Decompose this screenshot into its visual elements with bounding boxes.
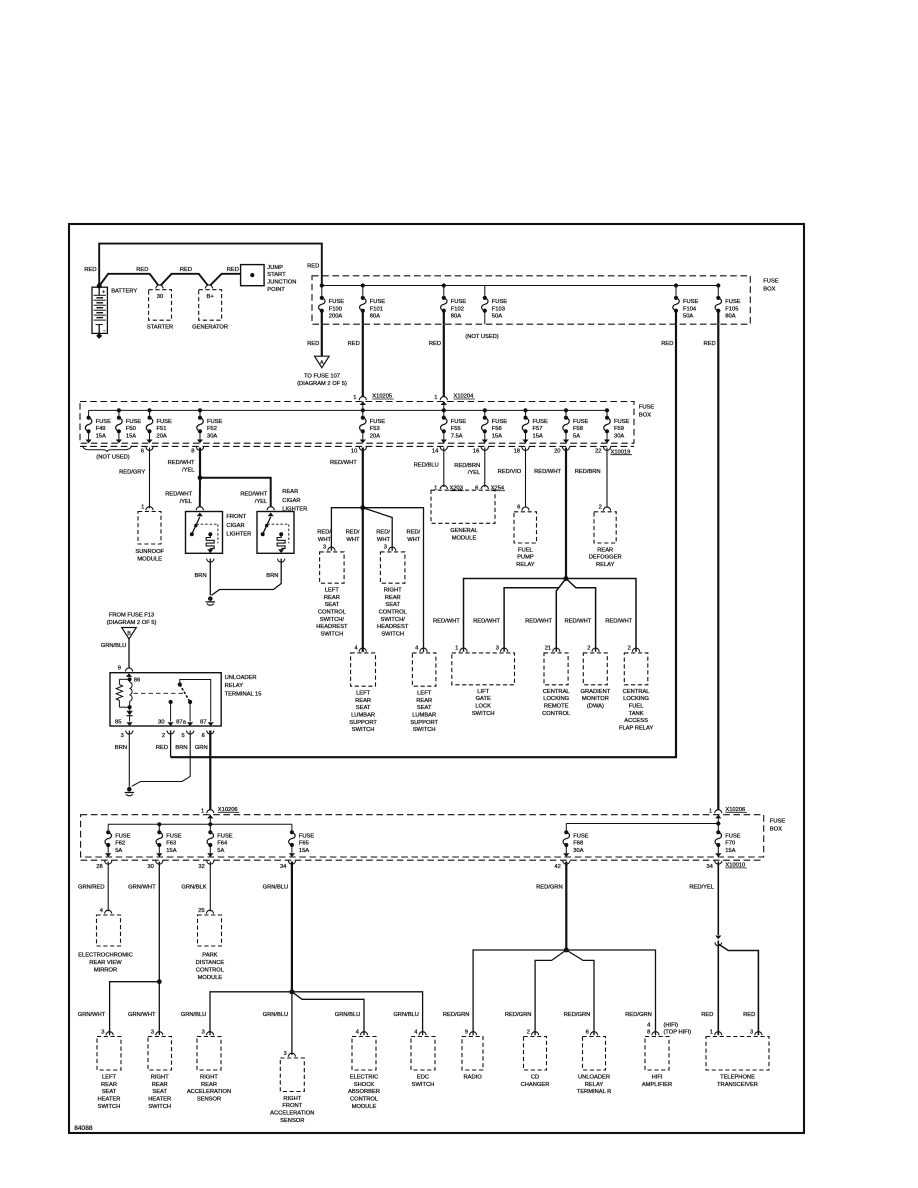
svg-text:GENERATOR: GENERATOR (192, 325, 228, 331)
svg-text:REAR VIEW: REAR VIEW (89, 960, 122, 966)
svg-text:SUPPORT: SUPPORT (349, 720, 377, 726)
wire F104 long feed (RED) (171, 324, 676, 757)
fuse F56 15A (484, 410, 486, 417)
svg-text:50A: 50A (683, 314, 693, 320)
svg-text:TRANSCEIVER: TRANSCEIVER (717, 1082, 758, 1088)
fuse box 2 output pin 22 (603, 447, 610, 451)
svg-text:5A: 5A (115, 848, 122, 854)
svg-text:RED/WHT: RED/WHT (564, 618, 591, 624)
relay contact 87 (180, 680, 211, 722)
svg-text:WHT: WHT (407, 537, 421, 543)
svg-text:200A: 200A (329, 314, 343, 320)
svg-text:(TOP HIFI): (TOP HIFI) (664, 1029, 692, 1035)
svg-text:F58: F58 (573, 426, 583, 432)
svg-text:FUSE: FUSE (683, 299, 699, 305)
svg-text:F53: F53 (370, 426, 380, 432)
rear cigar lighter (267, 507, 274, 511)
wire front lighter to ground (BRN) (207, 559, 214, 563)
svg-text:B+: B+ (206, 294, 214, 300)
battery positive distribution wire (RED) (99, 274, 158, 286)
wire F101 to X10205 (RED) (362, 324, 364, 397)
svg-text:GRN/RED: GRN/RED (78, 884, 105, 890)
svg-text:FUSE: FUSE (763, 278, 779, 284)
svg-text:REAR: REAR (597, 547, 613, 553)
connector X10206 left pin 1 (207, 810, 214, 814)
fuse F103 50A (484, 286, 486, 298)
svg-text:GRN: GRN (195, 745, 208, 751)
svg-text:FROM FUSE F13: FROM FUSE F13 (109, 613, 154, 619)
svg-text:2: 2 (587, 646, 590, 652)
connector X203 pin 1 (440, 485, 447, 489)
svg-text:F68: F68 (573, 841, 583, 847)
jump start junction point (241, 265, 265, 286)
svg-text:GRN/BLU: GRN/BLU (263, 884, 289, 890)
svg-text:1: 1 (353, 395, 356, 401)
connector X10205 pin 1 (359, 397, 366, 401)
svg-text:GRN/BLU: GRN/BLU (263, 1012, 289, 1018)
svg-text:−: − (103, 328, 106, 334)
svg-text:9: 9 (465, 1029, 468, 1035)
wire battery to fuse box bus (RED) (99, 244, 322, 286)
junction dot radio fan-out (564, 948, 569, 953)
svg-text:2: 2 (628, 646, 631, 652)
svg-text:FUSE: FUSE (725, 834, 741, 840)
svg-text:AMPLIFIER: AMPLIFIER (642, 1082, 672, 1088)
svg-text:RELAY: RELAY (225, 683, 244, 689)
generator G1 (205, 285, 212, 289)
svg-text:FUEL: FUEL (518, 547, 533, 553)
connector X10206 right pin 1 (715, 810, 722, 814)
svg-text:80A: 80A (451, 314, 461, 320)
svg-text:2: 2 (162, 733, 165, 739)
wire F100 to diagram 2 (RED) (321, 324, 323, 356)
svg-text:WHT: WHT (318, 537, 332, 543)
svg-text:28: 28 (96, 864, 102, 870)
svg-text:2: 2 (527, 1029, 530, 1035)
lift gate lock switch (460, 648, 467, 652)
fuse box 3 output pin 34 (288, 861, 295, 865)
svg-text:30: 30 (147, 864, 153, 870)
svg-text:GRN/BLU: GRN/BLU (335, 1012, 361, 1018)
svg-text:/YEL: /YEL (468, 470, 480, 476)
fuse F51 20A (149, 410, 151, 417)
svg-text:30A: 30A (207, 433, 217, 439)
svg-text:(DIAGRAM 2 OF 5): (DIAGRAM 2 OF 5) (297, 381, 347, 387)
svg-text:UNLOADER: UNLOADER (578, 1074, 610, 1080)
svg-text:1: 1 (710, 1029, 713, 1035)
svg-text:MIRROR: MIRROR (94, 967, 117, 973)
connector X254 pin 6 (481, 485, 488, 489)
svg-text:SEAT: SEAT (417, 705, 432, 711)
svg-text:1: 1 (201, 808, 204, 814)
relay contact 87a (189, 702, 191, 722)
svg-text:CIGAR: CIGAR (282, 498, 300, 504)
central locking fuel tank access flap relay (632, 648, 639, 652)
svg-text:6: 6 (141, 449, 144, 455)
unloader relay terminal 15 (110, 673, 221, 726)
svg-text:FLAP RELAY: FLAP RELAY (619, 726, 653, 732)
svg-text:14: 14 (432, 449, 439, 455)
svg-text:GRN/BLU: GRN/BLU (181, 1012, 207, 1018)
fuse box 3 output pin 28 (105, 861, 112, 865)
svg-text:RED/WHT: RED/WHT (605, 618, 632, 624)
svg-text:F65: F65 (299, 841, 309, 847)
svg-text:SWITCH: SWITCH (413, 727, 436, 733)
fuse box 3 left bus wire (108, 823, 292, 825)
svg-text:FUSE: FUSE (639, 405, 655, 411)
svg-text:/YEL: /YEL (180, 499, 192, 505)
svg-text:GRN/BLU: GRN/BLU (101, 643, 127, 649)
svg-text:MONITOR: MONITOR (582, 696, 609, 702)
fuse box 3 enclosure (81, 815, 764, 857)
radio (470, 1032, 477, 1036)
svg-text:+: + (102, 290, 105, 296)
wire to lift gate lock switch pin 3 (504, 588, 558, 652)
svg-text:RIGHT: RIGHT (200, 1074, 218, 1080)
svg-text:POINT: POINT (267, 287, 285, 293)
svg-text:ELECTRIC: ELECTRIC (350, 1074, 378, 1080)
svg-text:RED/WHT: RED/WHT (168, 460, 195, 466)
svg-text:LOCKING: LOCKING (543, 696, 569, 702)
svg-text:SUPPORT: SUPPORT (410, 720, 438, 726)
svg-text:CENTRAL: CENTRAL (543, 689, 570, 695)
svg-text:RED/BRN: RED/BRN (454, 463, 480, 469)
fuse F100 200A (321, 286, 323, 298)
wire F52 to cigar lighters (RED/WHT/YEL) (199, 448, 201, 478)
svg-text:F62: F62 (115, 841, 125, 847)
svg-text:SWITCH: SWITCH (352, 727, 375, 733)
svg-text:F63: F63 (166, 841, 176, 847)
fuse box 2 output pin 16 (481, 447, 488, 451)
svg-text:FRONT: FRONT (282, 1103, 302, 1109)
svg-text:RED/GRN: RED/GRN (564, 1012, 591, 1018)
svg-text:/YEL: /YEL (182, 467, 194, 473)
svg-text:3: 3 (496, 646, 499, 652)
svg-text:RED: RED (743, 1012, 755, 1018)
fuse F105 80A (717, 286, 719, 298)
svg-text:87a: 87a (176, 720, 187, 726)
svg-text:GRN/BLU: GRN/BLU (393, 1012, 419, 1018)
wire to hifi amplifier (566, 950, 655, 1035)
wire to right rear acceleration sensor (210, 992, 292, 1035)
svg-text:F51: F51 (157, 426, 167, 432)
svg-text:5: 5 (181, 733, 184, 739)
wire to right rear seat heater switch (158, 982, 160, 1035)
svg-text:REAR: REAR (101, 1082, 117, 1088)
svg-text:ACCESS: ACCESS (624, 718, 648, 724)
svg-text:F100: F100 (329, 306, 342, 312)
fuse box 3 output pin 42 (563, 861, 570, 865)
svg-text:RED/BLU: RED/BLU (414, 463, 439, 469)
svg-text:RED: RED (703, 341, 715, 347)
svg-text:1: 1 (455, 646, 458, 652)
svg-text:ACCELERATION: ACCELERATION (187, 1089, 231, 1095)
fuse F102 80A (443, 286, 445, 298)
svg-text:SUNROOF: SUNROOF (135, 549, 164, 555)
svg-text:F64: F64 (217, 841, 228, 847)
svg-text:FUSE: FUSE (370, 299, 386, 305)
svg-text:MODULE: MODULE (137, 556, 162, 562)
svg-text:CONTROL: CONTROL (350, 1097, 378, 1103)
svg-text:RED/BRN: RED/BRN (575, 469, 601, 475)
svg-text:MODULE: MODULE (198, 975, 223, 981)
fuse F68 30A (565, 824, 567, 833)
svg-text:FUSE: FUSE (573, 834, 589, 840)
svg-text:F57: F57 (533, 426, 543, 432)
svg-text:RED: RED (701, 1012, 713, 1018)
wire to CD changer (535, 950, 566, 1035)
svg-text:85: 85 (115, 720, 122, 726)
svg-text:WHT: WHT (346, 537, 360, 543)
left rear seat heater switch (106, 1032, 113, 1036)
svg-text:SEAT: SEAT (325, 602, 340, 608)
inline connector on RED/YEL wire (715, 936, 721, 940)
svg-text:FUSE: FUSE (157, 419, 173, 425)
off-page connector A to fuse 107 (315, 356, 330, 368)
svg-text:3: 3 (151, 1029, 154, 1035)
wire F57 to fuel pump relay (RED/VIO) (525, 448, 527, 508)
svg-text:BOX: BOX (639, 412, 651, 418)
svg-text:6: 6 (202, 733, 205, 739)
front cigar lighter (196, 507, 203, 511)
junction dot at battery positive (97, 284, 102, 289)
svg-text:RED: RED (136, 267, 148, 273)
svg-text:CONTROL: CONTROL (542, 711, 570, 717)
svg-text:F102: F102 (451, 306, 464, 312)
svg-text:RED/WHT: RED/WHT (534, 469, 561, 475)
svg-text:80A: 80A (370, 314, 380, 320)
svg-text:RED/WHT: RED/WHT (330, 460, 357, 466)
general module (431, 490, 495, 523)
svg-text:RIGHT: RIGHT (283, 1096, 301, 1102)
svg-text:RED: RED (661, 341, 673, 347)
svg-text:34: 34 (706, 864, 713, 870)
svg-text:F104: F104 (683, 306, 697, 312)
svg-text:SEAT: SEAT (152, 1089, 167, 1095)
wire to lift gate lock switch pin 1 (464, 579, 567, 652)
svg-text:4: 4 (354, 646, 358, 652)
fuse F64 5A (209, 824, 211, 832)
svg-text:FUSE: FUSE (217, 834, 233, 840)
svg-text:3: 3 (283, 1051, 286, 1057)
svg-text:RED: RED (307, 341, 319, 347)
svg-text:CONTROL: CONTROL (318, 609, 346, 615)
svg-text:RED/: RED/ (376, 530, 390, 536)
svg-text:RED/WHT: RED/WHT (165, 491, 192, 497)
svg-text:3: 3 (101, 1029, 104, 1035)
svg-text:B: B (127, 631, 131, 637)
central locking remote control (553, 648, 560, 652)
svg-text:(NOT USED): (NOT USED) (96, 455, 130, 461)
svg-text:SEAT: SEAT (102, 1089, 117, 1095)
svg-text:SWITCH: SWITCH (412, 1082, 435, 1088)
fuse F59 30A (606, 410, 608, 417)
wire to right rear seat control switch (363, 508, 392, 551)
wire F65 EDC feed (GRN/BLU) (291, 862, 293, 992)
svg-text:20A: 20A (157, 433, 167, 439)
svg-text:4: 4 (356, 1029, 360, 1035)
svg-text:SWITCH: SWITCH (98, 1104, 121, 1110)
svg-text:BRN: BRN (175, 745, 187, 751)
svg-text:RED: RED (307, 264, 319, 270)
svg-text:F59: F59 (614, 426, 624, 432)
wire rear lighter to ground (BRN) (278, 559, 285, 563)
svg-text:DEFOGGER: DEFOGGER (589, 555, 622, 561)
svg-text:FUSE: FUSE (573, 419, 589, 425)
right rear acceleration sensor (206, 1032, 213, 1036)
wire F63 heater feed (GRN/WHT) (158, 862, 160, 982)
svg-text:FUSE: FUSE (492, 419, 508, 425)
svg-text:34: 34 (280, 864, 287, 870)
wire to unloader relay terminal R (566, 950, 594, 1035)
fuse F70 15A (717, 824, 719, 833)
svg-text:F101: F101 (370, 306, 383, 312)
svg-text:F103: F103 (492, 306, 505, 312)
svg-text:FUSE: FUSE (451, 419, 467, 425)
fuse box 1 enclosure (312, 276, 750, 324)
junction dot lock fan-out (564, 576, 569, 581)
right rear seat control switch / headrest switch (389, 547, 396, 551)
fuse F55 7.5A (443, 410, 445, 417)
fuse F52 30A (199, 410, 201, 417)
fuel pump relay (522, 507, 529, 511)
svg-text:FUSE: FUSE (115, 834, 131, 840)
unloader relay pin 9 connector (125, 668, 132, 672)
svg-text:SWITCH/: SWITCH/ (320, 617, 345, 623)
wire F102 to X10204 (RED) (443, 324, 445, 397)
rear defogger relay (603, 507, 610, 511)
svg-text:4: 4 (647, 1023, 651, 1029)
svg-text:TERMINAL 15: TERMINAL 15 (225, 692, 262, 698)
svg-text:3: 3 (121, 733, 124, 739)
svg-text:FUSE: FUSE (299, 834, 315, 840)
svg-text:F56: F56 (492, 426, 502, 432)
svg-text:BOX: BOX (770, 826, 782, 832)
svg-text:25: 25 (198, 908, 204, 914)
unloader relay pin 6 (207, 731, 214, 735)
fuse box 2 enclosure (80, 402, 634, 444)
svg-text:15A: 15A (725, 848, 735, 854)
fuse F101 80A (362, 286, 364, 298)
svg-text:MODULE: MODULE (452, 535, 477, 541)
svg-text:2: 2 (599, 505, 602, 511)
svg-text:1: 1 (141, 504, 144, 510)
unloader relay pin 2 (167, 731, 174, 735)
svg-text:16: 16 (473, 449, 479, 455)
svg-text:BRN: BRN (194, 573, 206, 579)
svg-text:30: 30 (157, 294, 163, 300)
fuse F53 20A (362, 410, 364, 417)
svg-text:BRN: BRN (115, 745, 127, 751)
svg-text:CONTROL: CONTROL (379, 609, 407, 615)
svg-text:REAR: REAR (152, 1082, 168, 1088)
fuse box 2 output pin 14 (440, 447, 447, 451)
fuse box 2 output pin 10 (359, 447, 366, 451)
junction dot cigar lighter feed (198, 475, 203, 480)
svg-text:LOCK: LOCK (475, 704, 491, 710)
wire F51 to sunroof module (RED/GRY) (149, 448, 151, 509)
right rear seat heater switch (156, 1032, 163, 1036)
wire F62 to mirror (GRN/RED) (107, 862, 109, 912)
svg-text:FUSE: FUSE (492, 299, 508, 305)
svg-text:LEFT: LEFT (356, 690, 371, 696)
svg-text:RIGHT: RIGHT (151, 1074, 169, 1080)
wire F53 main feed (RED/WHT) (362, 448, 364, 653)
fuse box 3 output pin 30 (156, 861, 163, 865)
fuse F57 15A (525, 410, 527, 417)
svg-text:4: 4 (415, 646, 419, 652)
svg-text:RED/: RED/ (317, 530, 331, 536)
svg-text:10: 10 (351, 449, 357, 455)
svg-text:FUSE: FUSE (370, 419, 386, 425)
fuse box 2 output pin 8 (196, 447, 203, 451)
svg-text:REAR: REAR (201, 1082, 217, 1088)
svg-text:(HIFI): (HIFI) (664, 1023, 679, 1029)
svg-text:RED/WHT: RED/WHT (240, 491, 267, 497)
svg-text:FUEL: FUEL (629, 704, 644, 710)
svg-text:84088: 84088 (74, 1125, 93, 1132)
svg-text:9: 9 (118, 665, 121, 671)
svg-text:START: START (267, 272, 286, 278)
svg-text:SENSOR: SENSOR (280, 1118, 304, 1124)
svg-text:4: 4 (100, 908, 104, 914)
svg-text:LIGHTER: LIGHTER (226, 532, 251, 538)
svg-text:15A: 15A (533, 433, 543, 439)
svg-text:RED/GRN: RED/GRN (505, 1012, 532, 1018)
svg-text:FUSE: FUSE (329, 299, 345, 305)
relay switch contact 30 (169, 700, 173, 704)
wire to central locking fuel tank flap relay (566, 579, 636, 652)
svg-text:RADIO: RADIO (463, 1074, 482, 1080)
wire relay pin 5 to ground (BRN) (132, 731, 191, 787)
svg-text:RED: RED (429, 341, 441, 347)
svg-text:REAR: REAR (355, 698, 371, 704)
svg-text:30A: 30A (614, 433, 624, 439)
gradient monitor (DWA) (592, 648, 599, 652)
svg-text:(NOT USED): (NOT USED) (465, 334, 499, 340)
svg-text:LUMBAR: LUMBAR (412, 712, 436, 718)
svg-text:8: 8 (647, 1029, 650, 1035)
wire to telephone transceiver pin 3 (RED) (718, 944, 758, 1035)
svg-text:FRONT: FRONT (226, 514, 246, 520)
svg-text:F50: F50 (126, 426, 136, 432)
fuse box 2 output pin 6 (146, 447, 153, 451)
svg-text:GENERAL: GENERAL (450, 528, 477, 534)
svg-text:86: 86 (134, 678, 140, 684)
svg-text:SWITCH: SWITCH (321, 632, 344, 638)
svg-text:GATE: GATE (476, 696, 491, 702)
svg-text:LIFT: LIFT (477, 689, 489, 695)
svg-text:GRN/BLK: GRN/BLK (181, 884, 206, 890)
wire from fuse F13 (GRN/BLU) (128, 639, 130, 668)
ground G201 unloader relay (127, 787, 132, 792)
svg-text:SEAT: SEAT (385, 602, 400, 608)
svg-text:RED: RED (84, 267, 96, 273)
page border frame (69, 224, 804, 1133)
left rear seat lumbar support switch 2 (420, 648, 427, 652)
left rear seat lumbar support switch 1 (359, 648, 366, 652)
junction dot seat switch feed (360, 505, 365, 510)
wire F70 to telephone (RED/YEL) (717, 862, 719, 936)
svg-text:F105: F105 (725, 306, 738, 312)
junction dot heater switches (157, 979, 162, 984)
svg-text:FUSE: FUSE (451, 299, 467, 305)
fuse F50 15A (118, 410, 120, 417)
svg-text:GRN/WHT: GRN/WHT (78, 1012, 106, 1018)
svg-text:ABSORBER: ABSORBER (348, 1089, 380, 1095)
svg-text:RED/WHT: RED/WHT (473, 618, 500, 624)
wire to EDC switch (292, 992, 423, 1035)
